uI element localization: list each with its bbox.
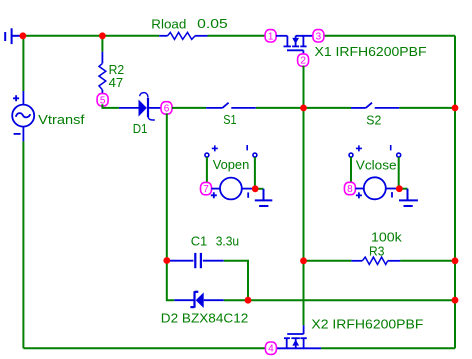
wire right rail xyxy=(454,36,456,349)
MOSFET X1 xyxy=(276,36,313,55)
wire Vopen minus to ground xyxy=(255,188,263,190)
svg-text:3.3u: 3.3u xyxy=(216,233,239,248)
control pin - of S1 (Vopen) xyxy=(247,145,257,157)
resistor Rload xyxy=(159,32,207,39)
ground (Vclose) xyxy=(399,189,418,206)
wire control stubs Vopen xyxy=(207,157,255,186)
junction C1 left xyxy=(163,257,170,264)
svg-text:D1: D1 xyxy=(133,121,148,136)
wire left branch below node 6 xyxy=(167,113,175,300)
node 2 xyxy=(298,54,309,67)
node 4 xyxy=(265,342,276,355)
junction R2 tap xyxy=(99,32,106,39)
switch S1 xyxy=(206,103,256,108)
capacitor C1 xyxy=(167,253,224,268)
node 6 xyxy=(161,102,172,115)
wire X2 gate stem xyxy=(303,325,305,334)
svg-text:2: 2 xyxy=(300,56,306,67)
voltage source Vopen xyxy=(211,178,253,200)
svg-text:Vopen: Vopen xyxy=(213,157,250,172)
junction top-left xyxy=(20,32,27,39)
svg-text:0.05: 0.05 xyxy=(197,16,228,31)
voltage source Vclose xyxy=(355,177,396,199)
junction R3 left xyxy=(300,257,307,264)
svg-text:7: 7 xyxy=(203,184,209,195)
svg-text:8: 8 xyxy=(347,184,353,195)
wire X gate rail xyxy=(303,66,305,326)
wire node5 to D1 xyxy=(102,104,119,108)
node 8 xyxy=(344,182,355,195)
wire S1 row xyxy=(172,107,455,109)
svg-text:3: 3 xyxy=(316,31,322,42)
wire C1 to bottom branch xyxy=(224,261,248,301)
ground (Vopen) xyxy=(255,189,272,206)
control pin + of S1 (Vopen) xyxy=(205,145,218,157)
switch S2 xyxy=(351,103,399,108)
wire left rail xyxy=(22,36,24,349)
svg-text:Vtransf: Vtransf xyxy=(38,112,85,127)
node 5 xyxy=(97,94,108,107)
voltage source Vtransf xyxy=(12,91,34,141)
junction C1 return xyxy=(245,297,252,304)
node 7 xyxy=(201,182,212,195)
svg-text:47: 47 xyxy=(109,75,124,90)
MOSFET X2 xyxy=(276,334,321,348)
svg-text:X1 IRFH6200PBF: X1 IRFH6200PBF xyxy=(315,44,427,59)
svg-text:6: 6 xyxy=(164,103,170,114)
junction D2 row x right rail xyxy=(452,297,459,304)
svg-text:Rload: Rload xyxy=(151,16,186,31)
svg-text:C1: C1 xyxy=(191,233,208,248)
resistor R3 xyxy=(304,260,456,262)
diode D2 (zener) xyxy=(174,291,224,308)
diode D1 xyxy=(119,93,161,120)
svg-text:Vclose: Vclose xyxy=(356,157,397,172)
svg-text:R3: R3 xyxy=(369,243,384,258)
node 3 xyxy=(313,30,324,43)
svg-text:X2 IRFH6200PBF: X2 IRFH6200PBF xyxy=(311,317,423,332)
wire bottom rail xyxy=(23,347,455,349)
junction Vopen minus xyxy=(252,185,259,192)
junction S2 row x right rail xyxy=(452,105,459,112)
node 1 xyxy=(265,30,276,43)
control pin - of S2 (Vclose) xyxy=(391,145,401,157)
svg-text:D2 BZX84C12: D2 BZX84C12 xyxy=(161,310,249,325)
wire Vclose minus to ground xyxy=(399,188,407,190)
resistor R2 xyxy=(101,36,103,52)
junction R3 right xyxy=(452,257,459,264)
wire top rail xyxy=(20,35,455,37)
junction Vclose minus xyxy=(396,185,403,192)
wire control stubs Vclose xyxy=(351,157,399,186)
ground (top-left, rotated) xyxy=(5,28,20,44)
svg-text:4: 4 xyxy=(268,344,274,355)
control pin + of S2 (Vclose) xyxy=(349,145,362,157)
svg-text:100k: 100k xyxy=(371,229,402,244)
svg-text:1: 1 xyxy=(268,31,274,42)
svg-text:S2: S2 xyxy=(366,113,381,128)
svg-text:S1: S1 xyxy=(223,112,236,127)
junction S1 row x X rail xyxy=(300,105,307,112)
wire D2 row xyxy=(224,299,455,301)
